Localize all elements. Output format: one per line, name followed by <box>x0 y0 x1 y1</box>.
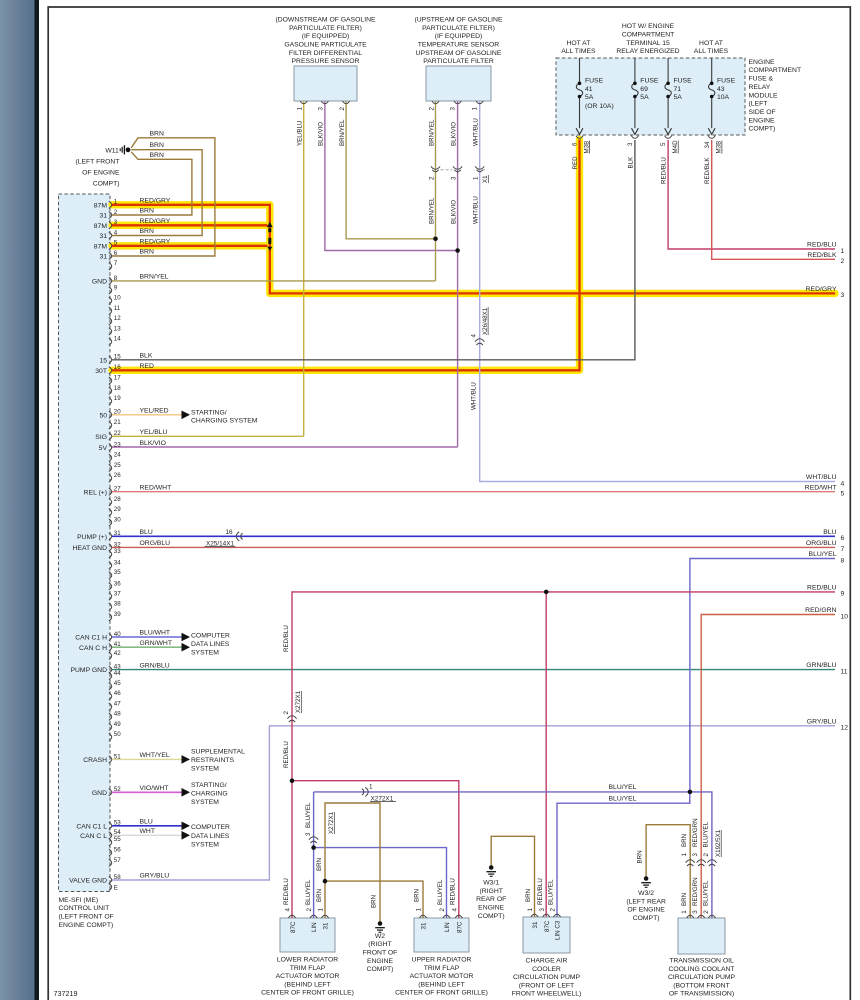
svg-text:WHT/BLU: WHT/BLU <box>470 382 477 410</box>
wire pin 54 WHT <box>112 834 182 836</box>
svg-text:(BEHIND LEFT: (BEHIND LEFT <box>418 981 464 988</box>
pin cups lower motor <box>288 915 295 918</box>
svg-text:3: 3 <box>449 107 456 111</box>
svg-text:SYSTEM: SYSTEM <box>191 766 219 773</box>
svg-text:RED/WHT: RED/WHT <box>140 484 172 491</box>
svg-text:BLU/YEL: BLU/YEL <box>548 879 555 905</box>
svg-text:CAN C1 L: CAN C1 L <box>76 823 107 830</box>
svg-text:RESTRAINTS: RESTRAINTS <box>191 757 235 764</box>
current flow arrow marks <box>267 222 273 251</box>
svg-text:WHT/YEL: WHT/YEL <box>140 752 170 759</box>
svg-text:FUSE: FUSE <box>717 78 736 85</box>
svg-text:9: 9 <box>841 591 845 598</box>
svg-text:RED/BLU: RED/BLU <box>283 625 290 652</box>
svg-text:(OR 10A): (OR 10A) <box>585 103 614 110</box>
svg-text:RED/GRN: RED/GRN <box>692 818 699 847</box>
wire output 8 BLU/YEL <box>690 559 835 792</box>
svg-text:11: 11 <box>841 668 848 675</box>
wire pin 22 YEL/BLU <box>112 435 304 437</box>
svg-text:22: 22 <box>114 430 121 437</box>
svg-text:18: 18 <box>114 385 121 392</box>
svg-text:FILTER DIFFERENTIAL: FILTER DIFFERENTIAL <box>289 50 362 57</box>
svg-text:SIG: SIG <box>95 434 107 441</box>
wire sensor2 pin1 WHT/BLU to output 4 <box>480 101 835 482</box>
svg-text:4: 4 <box>285 908 292 912</box>
arrow to computer data lines pin 54 <box>182 831 191 840</box>
svg-text:HOT AT: HOT AT <box>699 40 723 47</box>
ground W3/1 <box>486 865 496 876</box>
svg-text:7: 7 <box>114 260 118 267</box>
svg-text:BLU: BLU <box>823 529 836 536</box>
svg-text:UPSTREAM OF GASOLINE: UPSTREAM OF GASOLINE <box>416 50 502 57</box>
charge air cooler circulation pump box <box>523 917 570 953</box>
wire BRN lower motor 31 to W2 <box>325 803 380 923</box>
wire pin 6 BRN to W11 <box>112 138 215 256</box>
svg-text:W11: W11 <box>105 147 119 154</box>
svg-text:LIN: LIN <box>444 922 451 932</box>
svg-text:BLK: BLK <box>627 156 634 169</box>
svg-text:GRN/BLU: GRN/BLU <box>140 662 170 669</box>
svg-text:WHT/BLU: WHT/BLU <box>473 196 480 224</box>
svg-text:2: 2 <box>841 258 845 265</box>
svg-text:20: 20 <box>114 409 121 416</box>
svg-text:3: 3 <box>692 853 699 857</box>
svg-text:BLK: BLK <box>140 353 153 360</box>
wire RED/BLU branch to charge pump 87C <box>545 592 547 917</box>
svg-text:WHT/BLU: WHT/BLU <box>473 118 480 146</box>
svg-text:BRN: BRN <box>681 893 688 906</box>
svg-text:(IF EQUIPPED): (IF EQUIPPED) <box>435 33 483 40</box>
svg-text:COMPT): COMPT) <box>93 180 120 187</box>
svg-text:31: 31 <box>421 922 428 929</box>
svg-text:ACTUATOR MOTOR: ACTUATOR MOTOR <box>410 973 474 980</box>
svg-text:OF TRANSMISSION): OF TRANSMISSION) <box>669 991 734 998</box>
svg-text:31: 31 <box>99 233 107 240</box>
svg-text:BLU/YEL: BLU/YEL <box>703 880 710 906</box>
wire pin 31 BLU to output 6 <box>112 535 835 537</box>
svg-text:3: 3 <box>114 219 118 226</box>
svg-text:30T: 30T <box>95 368 107 375</box>
highlight pin 3 RED/GRY <box>112 222 268 229</box>
svg-text:(IF EQUIPPED): (IF EQUIPPED) <box>302 33 350 40</box>
wire sensor2 pin2 BRN/YEL down <box>435 101 437 281</box>
svg-text:ORG/BLU: ORG/BLU <box>140 540 171 547</box>
svg-text:ENGINE: ENGINE <box>367 958 394 965</box>
pin cups transmission pump <box>687 915 694 918</box>
junction BRN/YEL sensors <box>433 237 438 242</box>
svg-text:RED/GRY: RED/GRY <box>806 286 837 293</box>
svg-text:YEL/RED: YEL/RED <box>140 408 169 415</box>
svg-text:1: 1 <box>416 908 423 912</box>
svg-text:ALL TIMES: ALL TIMES <box>561 48 596 55</box>
svg-text:28: 28 <box>114 496 121 503</box>
svg-text:RED/GRN: RED/GRN <box>805 607 836 614</box>
svg-text:19: 19 <box>114 395 121 402</box>
connector X26/48X1 on WHT/BLU <box>475 339 484 342</box>
svg-text:5A: 5A <box>674 94 683 101</box>
svg-text:2: 2 <box>114 209 118 216</box>
svg-text:COOLER: COOLER <box>532 966 561 973</box>
svg-text:LOWER RADIATOR: LOWER RADIATOR <box>277 957 338 964</box>
svg-text:69: 69 <box>640 86 648 93</box>
svg-text:87C: 87C <box>544 920 551 932</box>
svg-text:SYSTEM: SYSTEM <box>191 799 219 806</box>
svg-text:PRESSURE SENSOR: PRESSURE SENSOR <box>292 58 360 65</box>
svg-text:31: 31 <box>99 213 107 220</box>
svg-text:BRN/YEL: BRN/YEL <box>428 197 435 224</box>
wire pin 52 VIO/WHT <box>112 791 182 793</box>
svg-text:W2: W2 <box>375 933 385 940</box>
svg-text:TRIM FLAP: TRIM FLAP <box>424 965 460 972</box>
svg-text:W3/1: W3/1 <box>483 880 499 887</box>
svg-text:WHT: WHT <box>140 828 155 835</box>
svg-text:14: 14 <box>114 336 121 343</box>
svg-text:BLU/WHT: BLU/WHT <box>140 630 171 637</box>
svg-text:4: 4 <box>114 229 118 236</box>
svg-text:SYSTEM: SYSTEM <box>191 649 219 656</box>
junction BRN lower/upper 31 <box>323 879 328 884</box>
svg-text:BRN: BRN <box>150 142 164 149</box>
svg-text:33: 33 <box>114 548 121 555</box>
svg-text:REAR OF: REAR OF <box>476 896 506 903</box>
svg-text:10A: 10A <box>717 94 730 101</box>
wire pin 58 GRY/BLU to output 12 <box>112 726 835 880</box>
svg-text:DATA LINES: DATA LINES <box>191 641 230 648</box>
svg-text:FUSE &: FUSE & <box>749 76 774 83</box>
wire pin 23 BLK/VIO <box>112 446 458 448</box>
svg-text:COMPT): COMPT) <box>367 966 394 973</box>
svg-text:41: 41 <box>114 641 121 648</box>
svg-text:RED: RED <box>140 363 154 370</box>
svg-text:3: 3 <box>450 176 457 180</box>
svg-text:PARTICULATE FILTER): PARTICULATE FILTER) <box>289 25 362 32</box>
svg-text:BLU/YEL: BLU/YEL <box>305 802 312 828</box>
svg-text:56: 56 <box>114 847 121 854</box>
svg-text:BRN/YEL: BRN/YEL <box>140 274 169 281</box>
sidebar dark strip <box>35 0 40 1000</box>
highlight pin 5 RED/GRY <box>112 242 268 249</box>
svg-text:PUMP (+): PUMP (+) <box>77 534 107 541</box>
svg-text:COMPT): COMPT) <box>749 126 776 133</box>
svg-text:HEAT GND: HEAT GND <box>73 545 108 552</box>
svg-text:15: 15 <box>114 354 121 361</box>
svg-text:11: 11 <box>114 305 121 312</box>
svg-text:26: 26 <box>114 472 121 479</box>
svg-text:YEL/BLU: YEL/BLU <box>140 429 168 436</box>
svg-text:BLU/YEL: BLU/YEL <box>609 796 637 803</box>
fuse 43 internal wire <box>709 58 715 128</box>
svg-text:RED/BLU: RED/BLU <box>807 585 837 592</box>
left sidebar <box>0 0 35 1000</box>
wire sensor1 pin2 BRN/YEL down <box>346 101 435 239</box>
svg-text:3: 3 <box>841 292 845 299</box>
svg-text:36: 36 <box>114 580 121 587</box>
svg-text:RED/BLK: RED/BLK <box>807 252 837 259</box>
svg-text:COMPT): COMPT) <box>633 915 660 922</box>
svg-text:9: 9 <box>114 284 118 291</box>
wire pin 27 RED/WHT to output 5 <box>112 491 835 493</box>
svg-text:OF ENGINE: OF ENGINE <box>627 907 665 914</box>
svg-text:(LEFT: (LEFT <box>749 101 768 108</box>
svg-text:42: 42 <box>114 650 121 657</box>
svg-text:CIRCULATION PUMP: CIRCULATION PUMP <box>668 974 736 981</box>
svg-text:30: 30 <box>114 516 121 523</box>
svg-text:BLK/VIO: BLK/VIO <box>318 122 325 146</box>
svg-text:12: 12 <box>841 725 849 732</box>
svg-text:COOLING COOLANT: COOLING COOLANT <box>668 966 734 973</box>
svg-text:4: 4 <box>451 908 458 912</box>
svg-text:BLK/VIO: BLK/VIO <box>450 122 457 146</box>
svg-text:GRY/BLU: GRY/BLU <box>807 718 837 725</box>
svg-text:PUMP GND: PUMP GND <box>70 667 107 674</box>
svg-text:ENGINE: ENGINE <box>749 59 776 66</box>
svg-text:FUSE: FUSE <box>585 78 604 85</box>
wire BRN transmission pump 1 to W3/2 <box>646 825 690 918</box>
arrow to computer data lines pin 53 <box>182 822 191 831</box>
wire BRN branch to upper motor 31 <box>325 881 423 918</box>
highlight pin 5 RED/GRY core <box>112 245 268 247</box>
svg-text:3: 3 <box>318 107 325 111</box>
svg-text:BLU/YEL: BLU/YEL <box>609 784 637 791</box>
svg-text:2: 2 <box>439 908 446 912</box>
wire sensor2 pin3 BLK/VIO down <box>457 101 459 447</box>
svg-text:39: 39 <box>114 611 121 618</box>
temperature sensor upstream of gasoline particulate filter box <box>426 66 491 101</box>
connector X1 on sensor2 wires <box>431 166 440 169</box>
svg-text:3: 3 <box>539 908 546 912</box>
svg-text:43: 43 <box>717 86 725 93</box>
svg-text:(RIGHT: (RIGHT <box>368 941 391 948</box>
svg-text:5: 5 <box>660 142 667 146</box>
svg-text:BRN: BRN <box>637 850 644 863</box>
svg-text:10: 10 <box>114 295 121 302</box>
svg-text:55: 55 <box>114 836 121 843</box>
svg-text:SIDE OF: SIDE OF <box>749 109 776 116</box>
gasoline particulate filter differential pressure sensor box <box>294 66 357 101</box>
highlight pin 1 RED/GRY to vertical and fused output 3 <box>112 205 835 294</box>
svg-text:COMPUTER: COMPUTER <box>191 633 230 640</box>
fuse 71 internal wire <box>665 58 671 128</box>
svg-text:ENGINE COMPT): ENGINE COMPT) <box>59 922 114 929</box>
svg-text:BRN: BRN <box>140 228 154 235</box>
svg-text:40: 40 <box>114 631 121 638</box>
highlight pin 1 RED/GRY to vertical and fused output 3 core <box>112 205 835 294</box>
svg-text:35: 35 <box>114 569 121 576</box>
svg-text:5: 5 <box>114 240 118 247</box>
junction RED/BLU motors <box>290 778 295 783</box>
svg-text:737219: 737219 <box>54 989 78 998</box>
svg-text:E: E <box>114 885 118 892</box>
svg-text:STARTING/: STARTING/ <box>191 782 227 789</box>
wire pin 51 WHT/YEL <box>112 758 182 760</box>
svg-text:TEMPERATURE SENSOR: TEMPERATURE SENSOR <box>418 41 500 48</box>
svg-text:8: 8 <box>841 557 845 564</box>
svg-text:PARTICULATE FILTER: PARTICULATE FILTER <box>423 58 494 65</box>
svg-text:(BEHIND LEFT: (BEHIND LEFT <box>284 981 330 988</box>
svg-text:TRANSMISSION OIL: TRANSMISSION OIL <box>669 958 734 965</box>
svg-text:BLU: BLU <box>140 819 153 826</box>
svg-text:34: 34 <box>114 559 121 566</box>
svg-text:23: 23 <box>114 441 121 448</box>
wire RED/BLU branch to upper motor 87C <box>292 781 459 918</box>
svg-text:48: 48 <box>114 711 121 718</box>
svg-text:RED/GRN: RED/GRN <box>692 877 699 906</box>
svg-text:RED/GRY: RED/GRY <box>140 239 171 246</box>
svg-text:CENTER OF FRONT GRILLE): CENTER OF FRONT GRILLE) <box>395 990 488 997</box>
ME-SFI connector pin arcs <box>109 201 112 208</box>
svg-text:8: 8 <box>114 275 118 282</box>
svg-text:2: 2 <box>703 910 710 914</box>
wire pin 43 GRN/BLU to output 11 <box>112 669 835 671</box>
connector X272X1 pin2 on RED/BLU <box>287 716 296 719</box>
svg-text:16: 16 <box>225 529 233 536</box>
svg-text:2: 2 <box>283 711 290 715</box>
svg-text:49: 49 <box>114 721 121 728</box>
svg-text:VIO/WHT: VIO/WHT <box>140 785 169 792</box>
arrow to starting charging system pin 52 <box>182 788 191 797</box>
svg-text:51: 51 <box>114 753 121 760</box>
svg-text:CHARGING SYSTEM: CHARGING SYSTEM <box>191 418 258 425</box>
highlight pin 3 RED/GRY core <box>112 224 268 226</box>
wire pin 53 BLU <box>112 825 182 827</box>
svg-text:21: 21 <box>114 419 121 426</box>
connector X192/5X1 on transmission wires <box>686 860 695 863</box>
wire pin 41 GRN/WHT <box>112 646 182 648</box>
svg-text:RED/BLU: RED/BLU <box>283 741 290 768</box>
svg-text:12: 12 <box>114 315 121 322</box>
svg-text:37: 37 <box>114 590 121 597</box>
svg-text:(LEFT REAR: (LEFT REAR <box>626 898 666 905</box>
fuse 69 internal wire <box>632 58 638 128</box>
svg-text:LIN: LIN <box>311 922 318 932</box>
svg-text:31: 31 <box>114 530 121 537</box>
svg-text:BLU/YEL: BLU/YEL <box>437 879 444 905</box>
svg-text:87M: 87M <box>94 243 108 250</box>
svg-text:24: 24 <box>114 452 121 459</box>
upper radiator trim flap actuator motor box <box>414 918 469 952</box>
arrow to supplemental restraints pin 51 <box>182 755 191 764</box>
lower radiator trim flap actuator motor box <box>280 918 335 952</box>
svg-text:45: 45 <box>114 680 121 687</box>
svg-text:STARTING/: STARTING/ <box>191 409 227 416</box>
svg-text:1: 1 <box>114 199 118 206</box>
svg-text:3: 3 <box>305 832 312 836</box>
svg-text:6: 6 <box>841 535 845 542</box>
junction RED/BLU output 9 and charge pump <box>544 590 549 595</box>
svg-text:RED/BLU: RED/BLU <box>807 242 837 249</box>
highlight pin 16 RED to fuse 41 core <box>112 140 580 371</box>
svg-text:50: 50 <box>114 731 121 738</box>
svg-text:BLU: BLU <box>140 529 153 536</box>
svg-text:1: 1 <box>527 908 534 912</box>
svg-text:1: 1 <box>841 248 845 255</box>
pin cups sensor1 <box>300 101 307 104</box>
svg-text:BRN: BRN <box>316 858 323 871</box>
svg-text:1: 1 <box>681 853 688 857</box>
svg-text:BRN: BRN <box>681 834 688 847</box>
svg-text:(FRONT OF LEFT: (FRONT OF LEFT <box>519 982 574 989</box>
svg-text:58: 58 <box>114 874 121 881</box>
svg-text:BLK/VIO: BLK/VIO <box>140 440 166 447</box>
svg-text:7: 7 <box>841 546 845 553</box>
junction BLU/YEL output 8 trunk <box>688 790 693 795</box>
engine compartment fuse and relay module box <box>556 58 745 135</box>
svg-text:MODULE: MODULE <box>749 92 779 99</box>
svg-text:HOT W/ ENGINE: HOT W/ ENGINE <box>622 23 675 30</box>
svg-text:2: 2 <box>550 908 557 912</box>
svg-text:BRN: BRN <box>371 895 378 908</box>
svg-text:DATA LINES: DATA LINES <box>191 833 230 840</box>
svg-text:W3/2: W3/2 <box>638 890 654 897</box>
svg-text:50: 50 <box>99 412 107 419</box>
svg-text:COMPUTER: COMPUTER <box>191 824 230 831</box>
svg-text:4: 4 <box>470 334 477 338</box>
svg-text:2: 2 <box>339 107 346 111</box>
svg-text:TERMINAL 15: TERMINAL 15 <box>626 40 670 47</box>
svg-text:BLK/VIO: BLK/VIO <box>450 200 457 224</box>
svg-text:(UPSTREAM OF GASOLINE: (UPSTREAM OF GASOLINE <box>415 16 503 23</box>
svg-text:RED/BLU: RED/BLU <box>283 878 290 905</box>
wire BRN charge pump 31 to W3/1 <box>491 836 534 917</box>
svg-text:6: 6 <box>114 250 118 257</box>
svg-text:ACTUATOR MOTOR: ACTUATOR MOTOR <box>276 973 340 980</box>
svg-text:1: 1 <box>681 910 688 914</box>
arrow to computer data lines pin 40 <box>182 633 191 642</box>
svg-text:RELAY: RELAY <box>749 84 771 91</box>
svg-text:29: 29 <box>114 506 121 513</box>
svg-text:16: 16 <box>114 364 121 371</box>
svg-text:GND: GND <box>92 790 107 797</box>
svg-text:(BOTTOM FRONT: (BOTTOM FRONT <box>673 982 730 989</box>
svg-text:GRN/BLU: GRN/BLU <box>806 662 836 669</box>
svg-text:SUPPLEMENTAL: SUPPLEMENTAL <box>191 748 245 755</box>
svg-text:BRN: BRN <box>414 889 421 902</box>
svg-text:(LEFT FRONT OF: (LEFT FRONT OF <box>59 914 114 921</box>
svg-text:ORG/BLU: ORG/BLU <box>806 540 837 547</box>
svg-text:BRN: BRN <box>150 152 164 159</box>
junction BLK/VIO sensors <box>455 248 460 253</box>
svg-text:44: 44 <box>114 670 121 677</box>
connector X272X1 pin1 on BLU/YEL <box>365 787 368 796</box>
svg-text:GRY/BLU: GRY/BLU <box>140 873 170 880</box>
ground W2 <box>375 921 385 932</box>
svg-text:VALVE GND: VALVE GND <box>69 878 107 885</box>
svg-text:BLU/YEL: BLU/YEL <box>703 821 710 847</box>
svg-text:CHARGE AIR: CHARGE AIR <box>526 958 568 965</box>
svg-text:BLU/YEL: BLU/YEL <box>809 551 837 558</box>
svg-text:CAN C1 H: CAN C1 H <box>75 635 107 642</box>
svg-text:17: 17 <box>114 375 121 382</box>
svg-text:1: 1 <box>297 107 304 111</box>
svg-text:6: 6 <box>572 142 579 146</box>
svg-text:5A: 5A <box>585 94 594 101</box>
svg-text:BRN: BRN <box>316 889 323 902</box>
wire output 10 RED/GRN to transmission pump <box>701 615 835 919</box>
wire fuse 71 RED/BLU to output 1 <box>668 140 835 249</box>
svg-text:RED/BLU: RED/BLU <box>449 878 456 905</box>
svg-text:M3B: M3B <box>716 141 723 154</box>
svg-text:COMPT): COMPT) <box>478 913 505 920</box>
svg-text:41: 41 <box>585 86 593 93</box>
transmission oil cooling coolant circulation pump box <box>678 918 725 954</box>
wire BLU/YEL branch to upper motor LIN <box>314 848 447 918</box>
wire pin 20 YEL/RED <box>112 414 182 416</box>
svg-text:CIRCULATION PUMP: CIRCULATION PUMP <box>513 974 581 981</box>
svg-text:25: 25 <box>114 462 121 469</box>
svg-text:(LEFT FRONT: (LEFT FRONT <box>75 158 119 165</box>
svg-text:ENGINE: ENGINE <box>478 905 505 912</box>
svg-text:2: 2 <box>428 176 435 180</box>
